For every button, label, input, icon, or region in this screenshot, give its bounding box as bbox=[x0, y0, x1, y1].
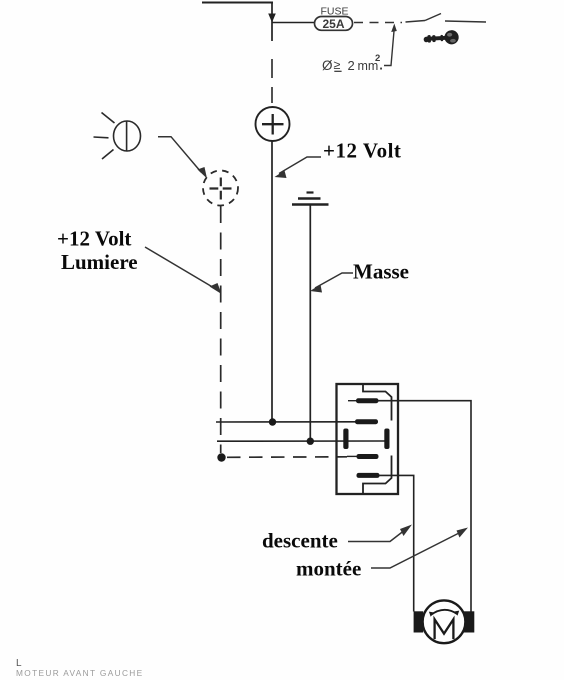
leader arrow from lamp to Lumiere node bbox=[158, 137, 207, 179]
wire: dashed Lumiere horizontal to relay pin 4 bbox=[227, 456, 347, 459]
relay connector X1 outline bbox=[337, 384, 399, 494]
svg-text:Ø: Ø bbox=[322, 58, 333, 73]
wire: dashed segment above battery circle bbox=[271, 59, 273, 103]
junction dot Lumiere bbox=[217, 453, 225, 461]
wire: dashed Lumiere vertical bbox=[220, 206, 222, 453]
svg-text:25A: 25A bbox=[322, 17, 344, 31]
leader arrow descente bbox=[348, 525, 412, 542]
relay pin 1 bbox=[348, 398, 379, 403]
wire: +12V to relay pin 2 bbox=[216, 421, 356, 423]
key icon bbox=[423, 30, 459, 46]
svg-text:descente: descente bbox=[262, 529, 338, 553]
leader arrow montee bbox=[371, 528, 468, 569]
relay pin 4 bbox=[347, 454, 379, 459]
svg-text:MOTEUR AVANT GAUCHE: MOTEUR AVANT GAUCHE bbox=[16, 668, 144, 678]
relay pin 3 (vertical pair) bbox=[343, 429, 389, 450]
svg-text:.: . bbox=[379, 58, 383, 73]
junction dot Masse bbox=[307, 438, 314, 445]
lamp symbol bbox=[94, 113, 141, 160]
wire: Masse vertical bbox=[309, 205, 311, 441]
wire: dashed segment from fuse to switch bbox=[354, 22, 402, 24]
leader arrow for Masse bbox=[310, 273, 353, 293]
wire: pin 1 to motor right terminal bbox=[378, 401, 471, 612]
label +12 Volt Lumiere bbox=[57, 227, 138, 275]
motor M terminals bbox=[414, 611, 475, 632]
svg-text:FUSE: FUSE bbox=[320, 6, 348, 18]
node: +12V Lumiere (dashed circle with cross) bbox=[203, 171, 238, 206]
svg-text:Masse: Masse bbox=[353, 260, 409, 284]
leader arrow for +12 Volt bbox=[275, 157, 322, 178]
wire: top horizontal +12V feed bbox=[202, 2, 273, 4]
svg-text:Lumiere: Lumiere bbox=[61, 250, 138, 274]
battery B1 (+12V source) bbox=[256, 107, 290, 141]
fuse F1 25A bbox=[315, 6, 353, 32]
current direction arrow on +12V wire bbox=[268, 14, 276, 23]
svg-text:+12 Volt: +12 Volt bbox=[323, 139, 401, 163]
switch S1 (ignition/key switch) bbox=[406, 14, 487, 23]
wire: Masse to relay pin 3 bbox=[217, 440, 385, 442]
leader arrow for +12 Volt Lumiere bbox=[145, 247, 222, 294]
svg-text:+12 Volt: +12 Volt bbox=[57, 227, 131, 251]
relay pin 2 bbox=[355, 419, 378, 424]
junction dot +12V bbox=[269, 418, 276, 425]
label: wire gauge note (diam >= 2 mm2) bbox=[322, 53, 383, 73]
ground symbol (Masse) bbox=[292, 193, 329, 205]
wire: main +12V vertical lower segment bbox=[271, 141, 273, 422]
svg-text:montée: montée bbox=[296, 557, 361, 581]
caption: L / MOTEUR AVANT GAUCHE bbox=[16, 658, 144, 678]
motor M body bbox=[423, 600, 466, 643]
svg-text:≥: ≥ bbox=[334, 58, 341, 72]
wire: branch to fuse bbox=[272, 22, 314, 24]
relay pin 5 bbox=[357, 473, 380, 478]
svg-text:2: 2 bbox=[348, 58, 355, 73]
wire: main +12V vertical upper solid segment bbox=[271, 3, 273, 42]
wire: pin 5 to motor left terminal bbox=[379, 475, 414, 611]
leader arrow from gauge note to dashed wire bbox=[384, 24, 397, 66]
